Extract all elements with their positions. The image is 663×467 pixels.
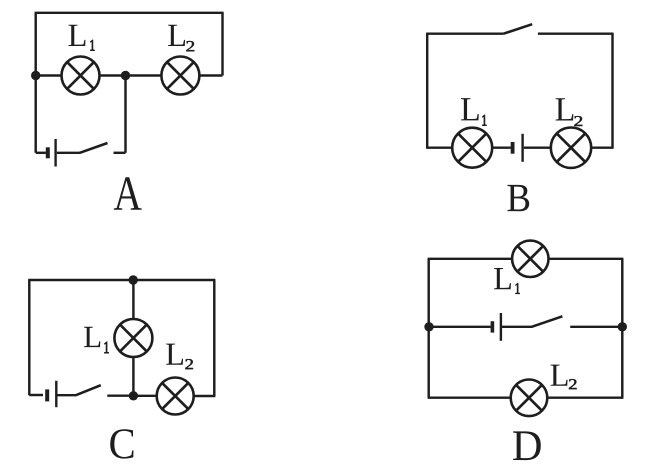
label L1 (A) xyxy=(68,25,94,51)
label L2 (B) xyxy=(556,98,583,126)
wire D middle left xyxy=(429,326,491,328)
wire A battery feed xyxy=(36,152,46,154)
wire C battery feed xyxy=(29,394,43,396)
wire A lamp row left xyxy=(36,74,62,76)
wire B top left xyxy=(426,32,503,34)
lamp L1 (A) xyxy=(62,57,100,95)
circuit C xyxy=(28,275,215,458)
battery BT (C) xyxy=(47,381,56,407)
node A middle junction xyxy=(121,71,130,80)
wire C lamp2 to right xyxy=(194,395,216,397)
battery BT (D) xyxy=(492,313,501,341)
switch S (C) blade xyxy=(76,385,101,395)
wire D right vertical xyxy=(621,259,623,398)
switch S (B) blade xyxy=(504,24,533,34)
label C xyxy=(110,429,133,458)
wire D bottom left xyxy=(428,396,511,398)
lamp L2 (C) xyxy=(157,378,194,415)
wire D battery to switch xyxy=(502,326,532,328)
wire B battery to lamp2 xyxy=(524,146,551,148)
node A left junction xyxy=(31,71,40,80)
wire B bottom left xyxy=(426,146,453,148)
battery BT (B) xyxy=(513,134,523,162)
switch S (A) blade xyxy=(80,143,108,153)
lamp L2 (B) xyxy=(551,128,591,168)
wire B right vertical xyxy=(611,34,613,148)
lamp L2 (A) xyxy=(161,57,199,95)
label L1 (C) xyxy=(84,327,109,353)
label L1 (D) xyxy=(494,268,520,294)
wire A between lamps xyxy=(100,74,162,76)
wire D left vertical xyxy=(427,259,429,398)
label L2 (D) xyxy=(551,365,577,390)
label L2 (A) xyxy=(168,25,194,52)
label D xyxy=(513,431,541,460)
label L1 (B) xyxy=(461,98,486,125)
switch S (D) contact xyxy=(570,326,622,328)
node D right junction xyxy=(618,322,627,331)
wire C top xyxy=(28,279,215,281)
wire D bottom right xyxy=(547,396,623,398)
circuit B xyxy=(426,24,613,211)
wire C middle vertical upper xyxy=(132,280,134,320)
wire B left vertical xyxy=(426,34,428,148)
wire D top left xyxy=(428,258,513,260)
label B xyxy=(508,185,530,211)
node C bottom junction xyxy=(129,391,138,400)
wire C middle vertical lower xyxy=(132,357,134,396)
label L2 (C) xyxy=(166,344,193,370)
wire A middle vertical xyxy=(124,76,126,153)
lamp L1 (B) xyxy=(452,128,492,168)
wire C left vertical xyxy=(28,280,30,395)
wire A right vertical xyxy=(221,13,223,76)
node D left junction xyxy=(424,322,433,331)
wire C battery to switch xyxy=(58,394,77,396)
wire B lamp1 to battery xyxy=(492,146,511,148)
switch S (C) contact xyxy=(107,394,133,396)
battery BT (A) xyxy=(48,139,56,167)
wire C right vertical xyxy=(213,280,215,396)
label A xyxy=(114,177,142,210)
wire A left vertical xyxy=(34,13,36,153)
wire C node to lamp2 xyxy=(133,395,157,397)
wire B bottom right xyxy=(591,146,613,148)
lamp L1 (C) xyxy=(114,319,152,357)
circuit D xyxy=(424,241,627,460)
wire A battery to switch xyxy=(57,152,80,154)
switch S (B) contact xyxy=(538,32,614,34)
lamp L2 (D) xyxy=(511,380,548,417)
switch S (D) blade xyxy=(532,316,563,327)
wire D top right xyxy=(548,258,623,260)
switch S (A) contact xyxy=(114,152,126,154)
wire A lamp row right xyxy=(199,74,222,76)
lamp L1 (D) xyxy=(512,241,548,277)
circuit A xyxy=(31,13,224,210)
node C top junction xyxy=(129,275,138,284)
wire A top xyxy=(35,12,224,14)
